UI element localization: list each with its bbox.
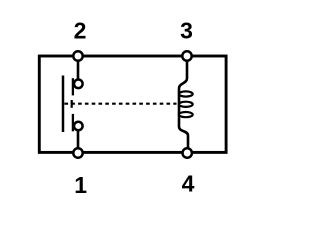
upper contact circle [74,80,83,89]
svg-text:1: 1 [74,172,87,198]
svg-text:2: 2 [74,18,87,44]
terminal 3 [182,51,191,60]
svg-text:3: 3 [180,18,193,44]
coil loop 2 [179,102,193,107]
lower contact circle [74,122,83,131]
terminal 2 [73,51,82,60]
coil U1 body wire [179,58,188,151]
mechanical link dashed line [65,103,177,105]
svg-text:4: 4 [182,171,195,197]
coil loop 3 [179,112,193,117]
terminal 1 [73,148,82,157]
wire terminal2 to upper contact [77,58,80,80]
actuator cross mark [71,100,73,108]
terminal 4 [183,148,192,157]
wire lower contact to terminal1 [77,130,80,151]
upper contact stub [72,78,74,95]
relay case outline [39,56,226,152]
lower contact stub [72,114,74,131]
armature bar of switch [62,76,65,133]
coil loop 1 [179,91,193,96]
